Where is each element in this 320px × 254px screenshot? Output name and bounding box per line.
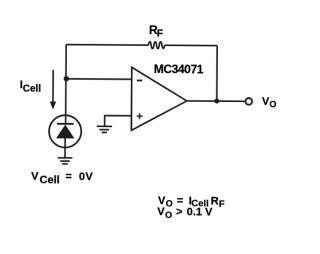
node junction at output [214, 99, 219, 104]
wire noninverting input [105, 116, 132, 126]
svg-text:>: > [176, 206, 183, 218]
svg-text:R: R [211, 195, 219, 207]
resistor RF [148, 42, 164, 49]
svg-text:Cell: Cell [23, 84, 42, 95]
svg-text:V: V [31, 171, 39, 183]
ground below cell [58, 158, 73, 164]
svg-text:Cell: Cell [39, 174, 59, 186]
svg-text:V: V [85, 171, 93, 183]
svg-text:0.1: 0.1 [187, 206, 202, 218]
wire output [186, 100, 245, 102]
wire right vertical feedback [216, 46, 218, 101]
svg-text:0: 0 [79, 171, 85, 183]
inverting pin minus [137, 79, 143, 81]
ground at op-amp + input [97, 126, 112, 132]
svg-text:V: V [205, 207, 213, 219]
wire inverting input [66, 78, 132, 80]
photovoltaic cell (diode in circle) [49, 115, 81, 158]
ICell current arrow [50, 70, 57, 110]
svg-text:O: O [166, 198, 173, 208]
wire top feedback right segment [165, 44, 218, 46]
svg-text:F: F [157, 29, 163, 40]
wire left vertical from feedback node to cell [65, 45, 68, 124]
wire top feedback left segment [66, 44, 148, 47]
svg-text:F: F [219, 199, 225, 210]
op-amp U1 MC34071 [131, 67, 187, 130]
svg-text:O: O [269, 99, 276, 109]
node junction at inverting input [64, 76, 69, 81]
svg-text:MC34071: MC34071 [154, 62, 204, 76]
noninverting pin plus [137, 113, 143, 119]
svg-text:O: O [165, 210, 172, 220]
output terminal circle [245, 98, 252, 105]
svg-text:=: = [65, 171, 72, 183]
svg-text:=: = [177, 195, 184, 207]
